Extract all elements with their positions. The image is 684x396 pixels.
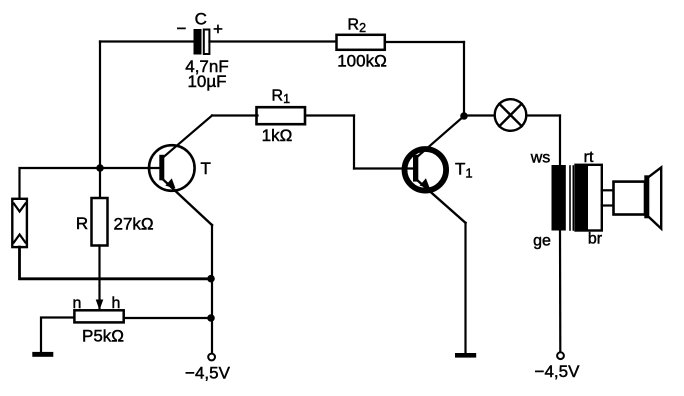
wire T base: [100, 167, 160, 169]
node collector junction: [460, 112, 468, 120]
wire emitter vertical: [211, 225, 213, 353]
resistor R1: [257, 107, 306, 124]
transformer core: [570, 166, 573, 230]
wire T1 emitter vertical: [464, 223, 466, 353]
resistor R: [92, 198, 108, 246]
svg-text:−: −: [177, 19, 187, 38]
resistor R2: [337, 35, 385, 50]
wire lamp to transformer corner: [526, 114, 560, 116]
svg-text:ge: ge: [533, 233, 551, 250]
svg-text:P5kΩ: P5kΩ: [82, 327, 124, 346]
wire transformer primary down to terminal: [559, 231, 561, 352]
wire top horizontal left of C: [100, 40, 195, 42]
wire secondary to speaker bottom: [602, 204, 614, 206]
wire pot left to ground: [41, 318, 74, 353]
wire corner down to node: [463, 42, 465, 116]
transformer secondary winding rt/br: [576, 165, 602, 231]
svg-text:27kΩ: 27kΩ: [114, 215, 154, 234]
wire T1 base horizontal: [354, 167, 414, 169]
svg-text:rt: rt: [584, 149, 594, 166]
wire sensor top: [20, 168, 101, 199]
svg-text:R: R: [76, 214, 88, 233]
svg-text:10µF: 10µF: [187, 72, 226, 91]
svg-text:100kΩ: 100kΩ: [337, 52, 387, 71]
microphone sensor: [12, 199, 27, 247]
svg-text:C: C: [195, 10, 207, 29]
lamp X1: [495, 99, 527, 131]
wire down to transformer: [559, 116, 561, 167]
terminal -4.5V right: [557, 352, 564, 359]
svg-text:n: n: [73, 295, 82, 312]
speaker: [614, 167, 662, 228]
svg-text:+: +: [213, 20, 223, 39]
wire top-left vertical: [99, 42, 101, 169]
svg-text:−4,5V: −4,5V: [535, 362, 581, 381]
wire R1 right: [306, 114, 355, 116]
terminal -4,5V left: [208, 354, 215, 361]
svg-text:h: h: [112, 295, 121, 312]
wiper arrow: [96, 300, 104, 311]
svg-text:ws: ws: [530, 150, 551, 167]
wire top horizontal right of C: [210, 40, 337, 42]
potentiometer P: [74, 310, 123, 322]
node emitter-bottom junction: [207, 275, 215, 283]
wire T collector diagonal: [163, 116, 212, 158]
ground T1: [455, 353, 476, 358]
svg-text:1kΩ: 1kΩ: [262, 126, 293, 145]
svg-text:−4,5V: −4,5V: [185, 364, 231, 383]
transistor T1: [405, 149, 466, 223]
wire pot right to junction: [124, 317, 211, 319]
svg-text:T: T: [201, 159, 211, 178]
ground pot: [32, 352, 53, 357]
wire R down to wiper: [98, 246, 100, 309]
transistor T: [149, 145, 212, 225]
wire junction down to R: [99, 168, 101, 198]
capacitor C: [194, 29, 210, 55]
wire T1 collector: [417, 116, 465, 158]
wire sensor bottom: [20, 247, 212, 279]
wire R1 left: [212, 114, 258, 116]
svg-text:br: br: [588, 231, 603, 248]
wire R1 right corner down: [353, 116, 355, 169]
wire node to lamp: [464, 114, 495, 116]
node pot junction: [207, 314, 215, 322]
transformer primary winding ws/ge: [552, 165, 566, 231]
wire R2 right to corner: [385, 41, 464, 43]
wire secondary to speaker top: [602, 189, 614, 191]
node base junction: [96, 164, 104, 172]
